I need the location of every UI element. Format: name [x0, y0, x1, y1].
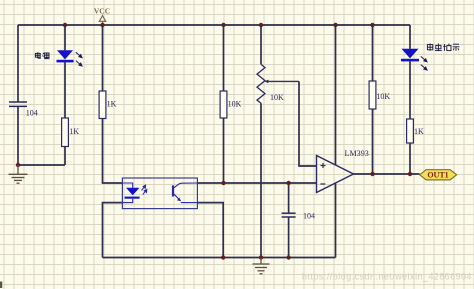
- op-amp U1 LM393: [317, 149, 369, 193]
- wire: R3 to collector net: [223, 118, 225, 183]
- wire: ground node horizontal: [18, 164, 65, 166]
- junction: 10K R3 branch on top rail: [221, 23, 225, 27]
- resistor R2 1K: [99, 91, 117, 119]
- resistor R3 10K: [220, 91, 242, 118]
- ground GND2: [253, 258, 270, 274]
- capacitor C1 104: [9, 102, 38, 118]
- svg-text:10K: 10K: [270, 93, 284, 102]
- wire: rail to comparator V+ pin: [335, 25, 337, 165]
- capacitor C2 104: [282, 183, 315, 258]
- wire: R4 to output net: [372, 109, 374, 174]
- wire: comparator output: [354, 173, 420, 175]
- wire: pot bottom to bottom rail: [260, 103, 262, 257]
- wire: rail to LED D1: [64, 25, 66, 50]
- svg-text:104: 104: [303, 212, 315, 221]
- svg-text:OUT1: OUT1: [427, 171, 448, 180]
- wire: LED D1 to R1: [64, 62, 66, 118]
- wire: pot wiper to comparator plus input: [299, 81, 317, 166]
- svg-text:https://blog.csdn.net/weixin_4: https://blog.csdn.net/weixin_42866904: [302, 272, 472, 282]
- label 电源 (power): [35, 52, 49, 58]
- resistor R4 10K: [369, 81, 390, 109]
- svg-text:1K: 1K: [107, 100, 117, 109]
- svg-text:104: 104: [26, 109, 38, 118]
- optocoupler U2 phototransistor: [173, 183, 197, 203]
- junction: emitter on bottom rail: [221, 255, 225, 259]
- junction: R4 branch on top rail: [370, 23, 374, 27]
- optocoupler U2 emission arrows: [142, 185, 147, 195]
- wire: collector net to comparator minus input: [197, 182, 316, 184]
- svg-text:1K: 1K: [69, 127, 79, 136]
- wire: C1 bottom to ground node: [17, 106, 19, 165]
- svg-text:1K: 1K: [414, 127, 424, 136]
- wire: R1 to ground node wire: [64, 147, 66, 166]
- wire: left branch from rail to C1: [17, 25, 19, 102]
- optocoupler U2 internal LED: [122, 183, 139, 203]
- junction: V+ branch on top rail: [333, 23, 337, 27]
- optocoupler U2 box: [122, 178, 197, 209]
- resistor R1 1K: [62, 118, 80, 147]
- watermark: [302, 272, 472, 282]
- svg-text:10K: 10K: [376, 92, 390, 101]
- corner artifact: [0, 282, 2, 289]
- port OUT1: [420, 170, 457, 180]
- junction: R4 on output net: [370, 172, 374, 176]
- wire: R5 to output net: [409, 143, 411, 174]
- wire: top VCC rail: [18, 24, 410, 26]
- wire: LED D2 to R5: [409, 61, 411, 119]
- junction: LED branch on top rail: [63, 23, 67, 27]
- wire: R2 to optocoupler anode pin: [103, 119, 123, 184]
- wire: optocoupler cathode pin to bottom rail: [103, 203, 123, 258]
- wire: rail to R2: [102, 25, 104, 91]
- junction: R3 on collector net: [221, 181, 225, 185]
- junction: VCC branch on top rail: [100, 23, 104, 27]
- svg-text:LM393: LM393: [345, 149, 369, 158]
- wire: bottom ground rail: [103, 257, 336, 259]
- LED D1 (power indicator): [57, 50, 83, 66]
- wire: rail corner down to LED D2: [409, 25, 411, 49]
- junction: C2 on bottom rail: [286, 255, 290, 259]
- svg-text:10K: 10K: [228, 100, 242, 109]
- wire: rail to R3: [223, 25, 225, 91]
- junction: pot branch on top rail: [259, 23, 263, 27]
- LED D2 (output indicator): [401, 49, 427, 70]
- label 输出指示 (output indicator): [427, 43, 459, 50]
- junction: R5 on output net: [408, 172, 412, 176]
- power port VCC: [94, 7, 110, 25]
- wire: comparator V- pin to bottom rail: [335, 183, 337, 257]
- junction: pot on bottom rail: [259, 255, 263, 259]
- junction: C2 on minus input net: [286, 181, 290, 185]
- svg-text:VCC: VCC: [94, 7, 110, 16]
- ground GND1: [9, 165, 28, 183]
- potentiometer RP 10K: [257, 64, 299, 103]
- wire: rail to potentiometer: [260, 25, 262, 64]
- wire: emitter pin to bottom rail: [197, 203, 223, 258]
- junction at ground node: [16, 163, 20, 167]
- wire: rail to R4: [372, 25, 374, 81]
- resistor R5 1K: [407, 119, 424, 143]
